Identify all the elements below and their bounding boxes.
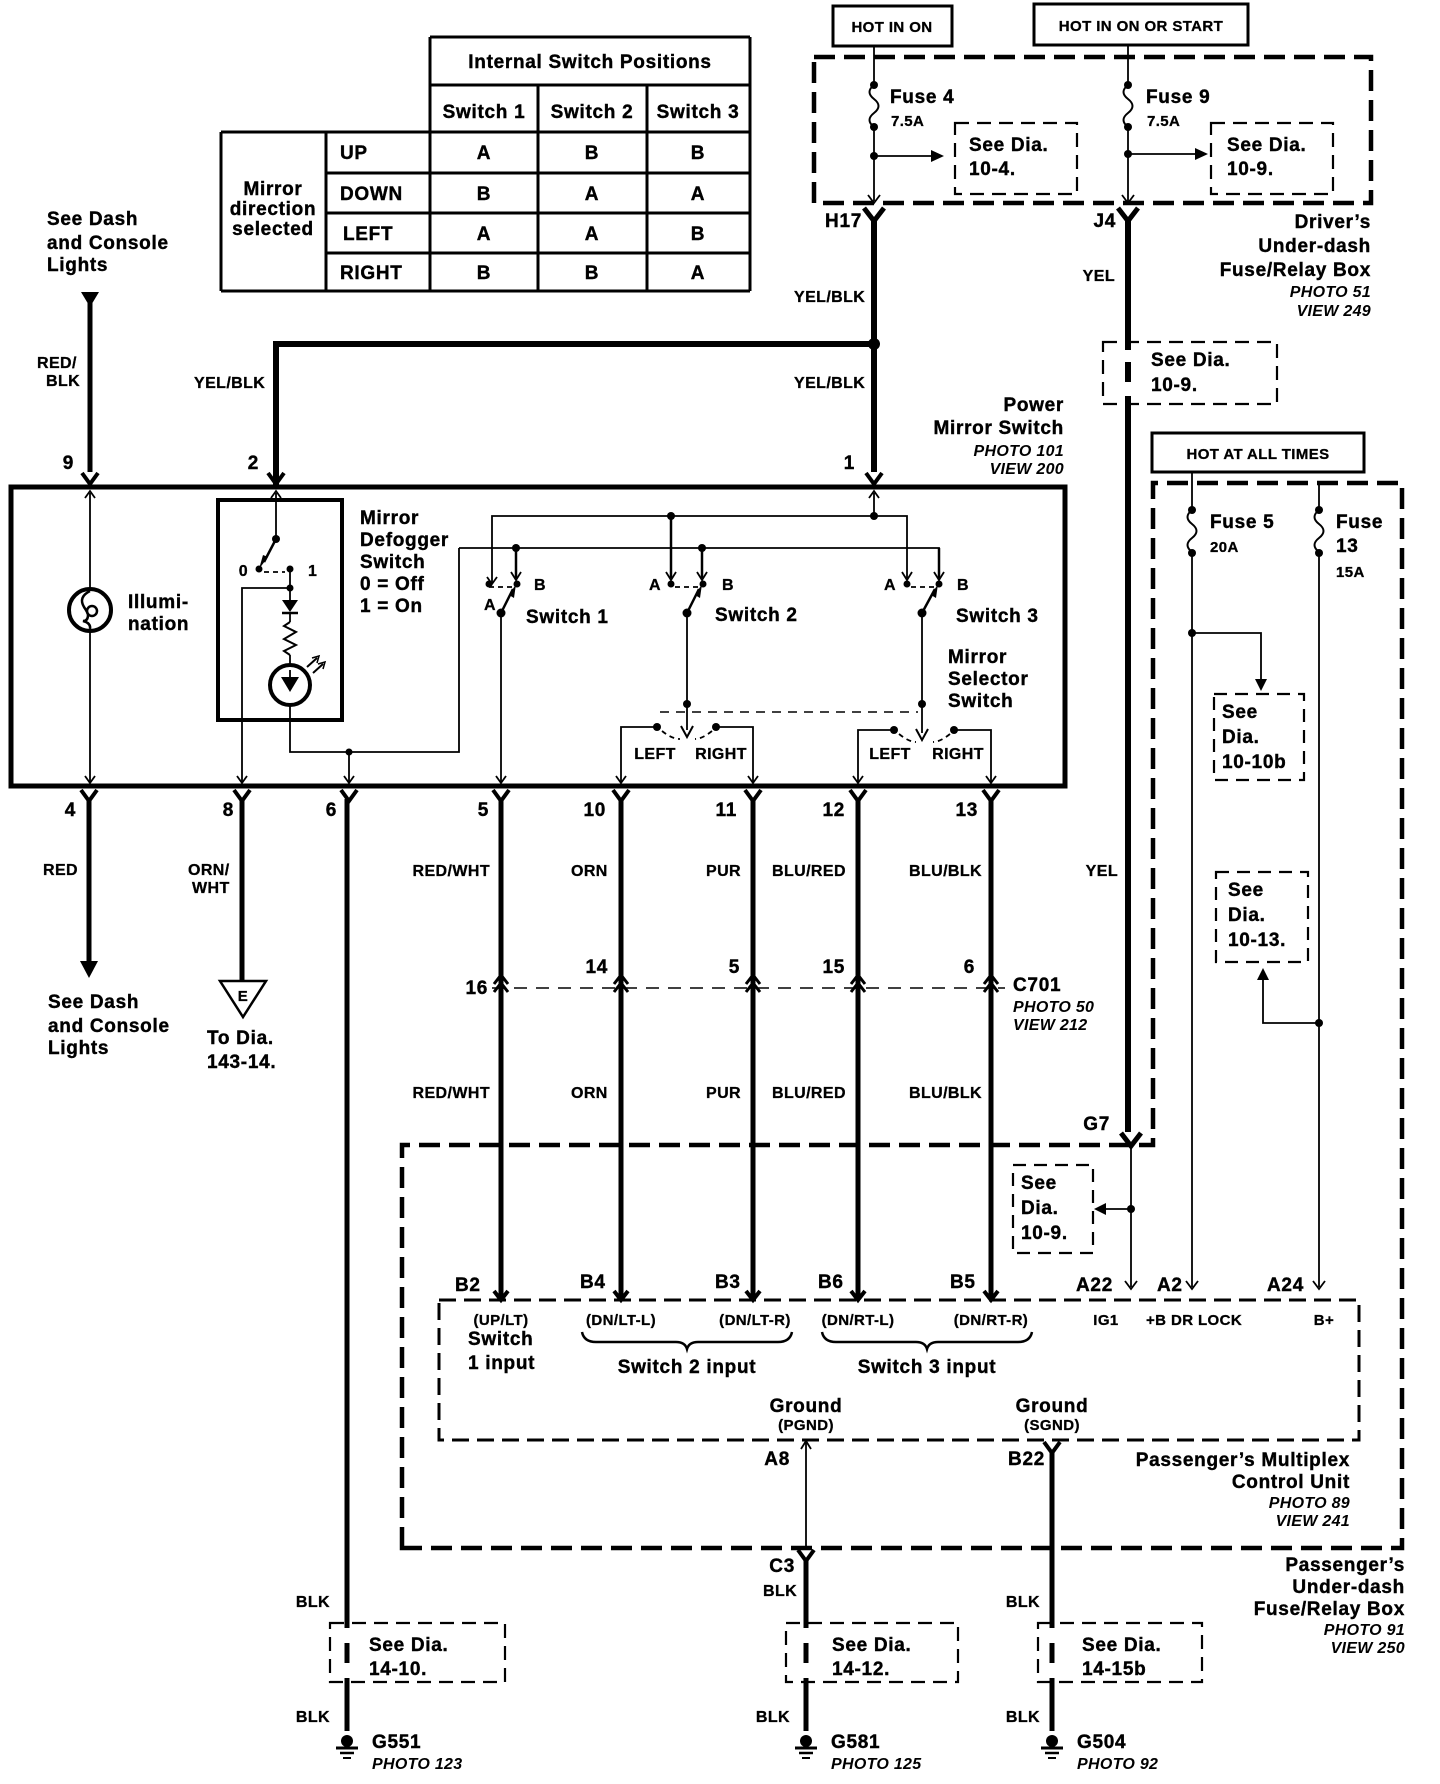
svg-text:16: 16 (465, 978, 488, 999)
svg-text:Under-dash: Under-dash (1258, 236, 1371, 257)
svg-text:J4: J4 (1093, 211, 1116, 232)
svg-text:UP: UP (340, 143, 368, 164)
svg-text:20A: 20A (1210, 539, 1239, 556)
svg-text:RIGHT: RIGHT (695, 746, 747, 763)
svg-text:G7: G7 (1083, 1114, 1110, 1135)
passenger's multiplex control unit box (dashed) (439, 1300, 1359, 1440)
svg-text:YEL: YEL (1086, 863, 1118, 880)
svg-text:B: B (477, 184, 491, 205)
ground G504 (1046, 1735, 1058, 1747)
switch 1 (487, 577, 497, 584)
svg-text:PHOTO 101: PHOTO 101 (974, 443, 1064, 460)
svg-text:Switch: Switch (360, 552, 425, 573)
svg-text:5: 5 (729, 957, 740, 978)
svg-text:15A: 15A (1336, 564, 1365, 581)
svg-text:B5: B5 (950, 1272, 976, 1293)
wire LED down and right to pin 6 (290, 548, 459, 752)
second bus wire (459, 548, 939, 577)
wire YEL/BLK horizontal to pin 2 (276, 344, 874, 485)
connector C701 dashed line (492, 987, 1005, 989)
switch 2 (670, 516, 673, 578)
switch 3 (874, 516, 907, 578)
svg-text:+B DR LOCK: +B DR LOCK (1146, 1312, 1242, 1329)
svg-text:BLK: BLK (46, 373, 80, 390)
svg-text:G581: G581 (831, 1732, 880, 1753)
pin 9 internal wire with illumination bulb (85, 491, 95, 498)
ground G581 (800, 1735, 812, 1747)
svg-text:and Console: and Console (47, 233, 169, 254)
fuse 13 (1318, 483, 1320, 510)
svg-text:PHOTO 123: PHOTO 123 (372, 1756, 462, 1773)
brace switch 2 input (582, 1332, 792, 1349)
svg-text:A: A (484, 597, 496, 614)
svg-text:See: See (1021, 1173, 1057, 1194)
svg-text:PHOTO 89: PHOTO 89 (1269, 1495, 1350, 1512)
LED light rays (307, 658, 323, 673)
svg-text:10-10b: 10-10b (1222, 752, 1286, 773)
svg-text:BLU/BLK: BLU/BLK (909, 863, 982, 880)
svg-text:VIEW 241: VIEW 241 (1276, 1513, 1350, 1530)
HOT IN ON box (833, 6, 952, 46)
svg-text:Switch 2: Switch 2 (715, 605, 798, 626)
svg-text:B6: B6 (818, 1272, 844, 1293)
wire ORN/WHT pin 8 to E (240, 799, 245, 981)
svg-text:A22: A22 (1076, 1275, 1113, 1296)
contact 1 (287, 566, 294, 573)
svg-text:(DN/LT-R): (DN/LT-R) (719, 1312, 791, 1329)
svg-text:VIEW 250: VIEW 250 (1331, 1640, 1405, 1657)
svg-text:Fuse/Relay Box: Fuse/Relay Box (1220, 260, 1371, 281)
See Dia. 10-13 box (1216, 872, 1308, 962)
svg-text:Switch: Switch (468, 1329, 533, 1350)
svg-text:1 = On: 1 = On (360, 596, 423, 617)
fuse 9 (1124, 81, 1132, 89)
svg-text:VIEW 212: VIEW 212 (1013, 1017, 1087, 1034)
svg-text:14-12.: 14-12. (832, 1659, 890, 1680)
svg-text:RED: RED (43, 862, 78, 879)
arrow fuse 13 branch up to See Dia 10-13 (1263, 976, 1319, 1023)
svg-text:1: 1 (844, 453, 855, 474)
svg-text:Defogger: Defogger (360, 530, 449, 551)
svg-text:(PGND): (PGND) (778, 1417, 834, 1434)
svg-text:HOT AT ALL TIMES: HOT AT ALL TIMES (1186, 446, 1329, 463)
svg-text:See Dia.: See Dia. (832, 1635, 912, 1656)
svg-text:YEL: YEL (1083, 268, 1115, 285)
svg-text:Fuse 4: Fuse 4 (890, 87, 954, 108)
See Dia. 14-12. box (786, 1623, 958, 1682)
svg-text:BLK: BLK (756, 1709, 790, 1726)
svg-text:A: A (649, 577, 661, 594)
svg-text:HOT IN ON: HOT IN ON (851, 19, 932, 36)
svg-text:B: B (691, 143, 705, 164)
svg-text:6: 6 (964, 957, 975, 978)
svg-text:See Dia.: See Dia. (1227, 135, 1307, 156)
svg-text:BLK: BLK (1006, 1594, 1040, 1611)
svg-text:9: 9 (63, 453, 74, 474)
top bus wire (492, 516, 874, 583)
svg-text:BLU/BLK: BLU/BLK (909, 1085, 982, 1102)
svg-text:Mirror: Mirror (243, 179, 302, 200)
svg-text:See Dash: See Dash (47, 209, 138, 230)
svg-text:14-15b: 14-15b (1082, 1659, 1146, 1680)
svg-text:15: 15 (822, 957, 845, 978)
svg-text:10-9.: 10-9. (1021, 1223, 1068, 1244)
svg-text:A: A (585, 224, 599, 245)
dashed throw between contacts (264, 571, 285, 573)
svg-text:direction: direction (230, 199, 317, 220)
svg-text:H17: H17 (825, 211, 862, 232)
svg-text:Passenger’s: Passenger’s (1285, 1555, 1405, 1576)
svg-text:Switch 3 input: Switch 3 input (858, 1357, 997, 1378)
svg-text:LEFT: LEFT (634, 746, 676, 763)
pin 1 internal wire to top bus (869, 491, 879, 498)
svg-text:B: B (534, 577, 546, 594)
svg-text:See: See (1228, 880, 1264, 901)
svg-text:11: 11 (716, 800, 738, 821)
svg-text:B: B (585, 143, 599, 164)
svg-text:Lights: Lights (48, 1038, 109, 1059)
resistor (289, 613, 291, 622)
wire branch to pin 8 (242, 588, 290, 782)
svg-text:13: 13 (1336, 536, 1359, 557)
svg-text:LEFT: LEFT (869, 746, 911, 763)
svg-text:Fuse: Fuse (1336, 512, 1383, 533)
defogger switch blade (272, 535, 280, 543)
svg-text:IG1: IG1 (1093, 1312, 1118, 1329)
svg-text:10-9.: 10-9. (1227, 159, 1274, 180)
svg-text:PHOTO 51: PHOTO 51 (1290, 284, 1371, 301)
svg-text:PHOTO 125: PHOTO 125 (831, 1756, 922, 1773)
svg-text:BLK: BLK (763, 1583, 797, 1600)
pin 2 internal wire (271, 491, 281, 498)
wire stub HOT IN ON to fuse 4 (873, 46, 875, 85)
svg-text:B: B (722, 577, 734, 594)
wire junction to pin 6 (348, 752, 350, 782)
svg-text:Switch 1: Switch 1 (526, 607, 609, 628)
svg-text:RIGHT: RIGHT (340, 263, 403, 284)
svg-text:13: 13 (955, 800, 978, 821)
svg-text:LEFT: LEFT (343, 224, 393, 245)
svg-text:See Dia.: See Dia. (369, 1635, 449, 1656)
svg-text:DOWN: DOWN (340, 184, 403, 205)
wire BLK pin 6 down to G551 (break at See Dia 14-10) (345, 799, 350, 1628)
mirror selector left (under switch 2) (653, 723, 661, 731)
arrow fuse 5 branch to See Dia 10-10b (1192, 633, 1261, 681)
wire ORN pin 10 to B4 (619, 799, 624, 1300)
svg-text:nation: nation (128, 614, 189, 635)
svg-text:PUR: PUR (706, 1085, 741, 1102)
svg-text:143-14.: 143-14. (207, 1052, 276, 1073)
See Dia. 10-10b box (1214, 694, 1304, 780)
svg-text:8: 8 (223, 800, 234, 821)
wire PUR pin 11 to B3 (751, 799, 756, 1300)
driver's under-dash fuse/relay box (dashed) (814, 57, 1371, 203)
svg-text:1: 1 (308, 563, 317, 580)
label Power Mirror Switch (933, 395, 1064, 439)
svg-text:YEL/BLK: YEL/BLK (794, 375, 865, 392)
svg-text:Fuse 9: Fuse 9 (1146, 87, 1210, 108)
wire RED/BLK pin 9 (88, 303, 93, 472)
svg-text:Switch 2: Switch 2 (551, 102, 634, 123)
svg-text:A: A (691, 184, 705, 205)
svg-text:B2: B2 (455, 1275, 481, 1296)
svg-text:Passenger’s Multiplex: Passenger’s Multiplex (1136, 1450, 1350, 1471)
svg-text:10: 10 (583, 800, 606, 821)
svg-text:Driver’s: Driver’s (1295, 212, 1371, 233)
HOT AT ALL TIMES box (1152, 433, 1364, 472)
power mirror switch box (11, 487, 1065, 786)
svg-text:BLK: BLK (1006, 1709, 1040, 1726)
svg-text:(DN/LT-L): (DN/LT-L) (586, 1312, 656, 1329)
See Dia. 10-9. box (lower) (1013, 1165, 1093, 1253)
svg-text:A: A (691, 263, 705, 284)
wire fuse 5 down to A2 (1191, 553, 1193, 1287)
svg-text:Dia.: Dia. (1222, 727, 1260, 748)
svg-text:10-4.: 10-4. (969, 159, 1016, 180)
ground G551 (341, 1735, 353, 1747)
svg-text:A: A (477, 224, 491, 245)
svg-text:BLU/RED: BLU/RED (772, 863, 846, 880)
svg-text:WHT: WHT (192, 880, 230, 897)
label mirror selector switch (948, 647, 1029, 712)
svg-text:5: 5 (478, 800, 489, 821)
contact 0 (256, 566, 263, 573)
svg-text:Switch 1: Switch 1 (443, 102, 526, 123)
wire YEL J4 down to G7 (with break at See Dia box) (1125, 221, 1131, 350)
fuse 4 (870, 81, 878, 89)
See Dia. 14-10. box (330, 1623, 505, 1682)
svg-text:ORN: ORN (571, 1085, 608, 1102)
mirror defogger switch box (218, 500, 342, 720)
HOT IN ON OR START box (1034, 4, 1248, 45)
svg-text:10-9.: 10-9. (1151, 375, 1198, 396)
svg-text:Dia.: Dia. (1228, 905, 1266, 926)
svg-text:RIGHT: RIGHT (932, 746, 984, 763)
illumination bulb (69, 589, 111, 631)
label Driver's Under-dash Fuse/Relay Box (1220, 212, 1371, 281)
svg-text:B: B (691, 224, 705, 245)
wire switch 2 to selector (686, 613, 688, 704)
svg-text:1 input: 1 input (468, 1353, 535, 1374)
fuse 5 (1188, 506, 1196, 514)
svg-text:10-13.: 10-13. (1228, 930, 1286, 951)
svg-text:See Dash: See Dash (48, 992, 139, 1013)
svg-text:selected: selected (232, 219, 314, 240)
wire contact 1 down (289, 569, 291, 600)
arrow fuse 4 to See Dia 10-4 (874, 155, 933, 157)
svg-text:PHOTO 50: PHOTO 50 (1013, 999, 1094, 1016)
svg-text:Lights: Lights (47, 255, 108, 276)
svg-text:2: 2 (248, 453, 259, 474)
svg-text:(SGND): (SGND) (1024, 1417, 1080, 1434)
svg-text:Mirror Switch: Mirror Switch (933, 418, 1064, 439)
svg-text:BLU/RED: BLU/RED (772, 1085, 846, 1102)
svg-text:Illumi-: Illumi- (128, 592, 189, 613)
svg-text:Switch 2 input: Switch 2 input (618, 1357, 757, 1378)
svg-text:14: 14 (585, 957, 608, 978)
arrow to See Dia 10-9 (lower) (1104, 1208, 1131, 1210)
svg-text:BLK: BLK (296, 1709, 330, 1726)
svg-text:To Dia.: To Dia. (207, 1028, 274, 1049)
svg-text:RED/: RED/ (37, 355, 77, 372)
svg-text:VIEW 249: VIEW 249 (1297, 303, 1371, 320)
C701 chevrons (494, 975, 998, 992)
wire fuse 13 down to A24 (1318, 553, 1320, 1287)
svg-text:and Console: and Console (48, 1016, 170, 1037)
See Dia. 10-9. box (middle) (1103, 342, 1277, 404)
svg-text:Power: Power (1003, 395, 1064, 416)
table Internal Switch Positions (221, 37, 750, 291)
svg-text:C3: C3 (769, 1556, 795, 1577)
svg-text:6: 6 (326, 800, 337, 821)
svg-text:See Dia.: See Dia. (1082, 1635, 1162, 1656)
svg-text:4: 4 (65, 800, 76, 821)
mechanical link dashed line (660, 711, 918, 713)
svg-text:BLK: BLK (296, 1594, 330, 1611)
pin function labels (473, 1312, 1334, 1329)
svg-text:12: 12 (822, 800, 845, 821)
BLK labels (296, 1583, 1040, 1726)
wire G7 to A22 (1130, 1148, 1132, 1287)
svg-text:Mirror: Mirror (360, 508, 419, 529)
svg-text:Under-dash: Under-dash (1292, 1577, 1405, 1598)
label mirror defogger switch (360, 508, 449, 617)
svg-text:Internal Switch Positions: Internal Switch Positions (468, 52, 711, 73)
svg-text:HOT IN ON OR START: HOT IN ON OR START (1059, 18, 1223, 35)
brace switch 3 input (822, 1332, 1032, 1349)
svg-text:B4: B4 (580, 1272, 606, 1293)
svg-text:7.5A: 7.5A (1147, 113, 1180, 130)
See Dia. 10-4. box (955, 123, 1077, 194)
svg-text:0 = Off: 0 = Off (360, 574, 425, 595)
svg-text:C701: C701 (1013, 975, 1061, 996)
svg-text:7.5A: 7.5A (891, 113, 924, 130)
svg-text:A: A (884, 577, 896, 594)
wire BLK C3 to G581 (804, 1559, 809, 1628)
svg-text:B: B (585, 263, 599, 284)
passenger's under-dash fuse/relay box + multiplex outer (dashed) (402, 483, 1402, 1548)
wire stub HOT IN ON OR START to fuse 9 (1127, 45, 1129, 85)
svg-text:0: 0 (239, 563, 248, 580)
svg-text:B22: B22 (1008, 1449, 1045, 1470)
svg-text:RED/WHT: RED/WHT (413, 1085, 490, 1102)
See Dia. 10-9. box (top) (1211, 123, 1333, 194)
svg-text:(DN/RT-L): (DN/RT-L) (822, 1312, 895, 1329)
C701 pin numbers (465, 957, 975, 999)
svg-text:Switch 3: Switch 3 (657, 102, 740, 123)
svg-text:B3: B3 (715, 1272, 741, 1293)
svg-text:A2: A2 (1157, 1275, 1183, 1296)
svg-text:Fuse 5: Fuse 5 (1210, 512, 1274, 533)
svg-text:ORN/: ORN/ (188, 862, 230, 879)
arrow from See Dash note (81, 292, 99, 307)
svg-text:G504: G504 (1077, 1732, 1126, 1753)
svg-text:PUR: PUR (706, 863, 741, 880)
wire fuse 9 to J4 (1127, 127, 1129, 201)
svg-text:B+: B+ (1314, 1312, 1334, 1329)
wire BLU/RED pin 12 to B6 (856, 799, 861, 1300)
svg-text:A24: A24 (1267, 1275, 1304, 1296)
See Dia. 14-15b box (1038, 1623, 1202, 1682)
wire BLK B22 to G504 (break at box) (1050, 1643, 1055, 1663)
svg-text:(DN/RT-R): (DN/RT-R) (954, 1312, 1028, 1329)
svg-text:B: B (957, 577, 969, 594)
svg-text:Mirror: Mirror (948, 647, 1007, 668)
note See Dash and Console Lights (top) (47, 209, 169, 276)
svg-text:Switch 3: Switch 3 (956, 606, 1039, 627)
svg-text:A: A (585, 184, 599, 205)
note See Dash and Console Lights (bottom) (48, 992, 170, 1059)
svg-text:Switch: Switch (948, 691, 1013, 712)
mirror selector right (under switch 3) (890, 726, 898, 734)
svg-text:G551: G551 (372, 1732, 421, 1753)
wire stub HOT AT ALL TIMES to fuse 5 (1191, 472, 1193, 510)
svg-text:Control Unit: Control Unit (1232, 1472, 1350, 1493)
wire BLU/BLK pin 13 to B5 (989, 799, 994, 1300)
svg-text:PHOTO 91: PHOTO 91 (1324, 1622, 1405, 1639)
wire switch 3 to selector (921, 613, 923, 704)
connector E triangle (220, 981, 266, 1017)
svg-text:Fuse/Relay Box: Fuse/Relay Box (1254, 1599, 1405, 1620)
diode (282, 600, 298, 612)
svg-text:See Dia.: See Dia. (1151, 350, 1231, 371)
svg-text:See: See (1222, 702, 1258, 723)
svg-text:E: E (238, 988, 248, 1005)
svg-text:See Dia.: See Dia. (969, 135, 1049, 156)
wire RED pin 4 to See Dash (87, 799, 92, 963)
arrow fuse 9 to See Dia 10-9 (1128, 153, 1197, 155)
svg-text:Dia.: Dia. (1021, 1198, 1059, 1219)
svg-text:B: B (477, 263, 491, 284)
svg-text:Selector: Selector (948, 669, 1029, 690)
svg-text:RED/WHT: RED/WHT (413, 863, 490, 880)
svg-text:Ground: Ground (1016, 1396, 1089, 1417)
svg-text:ORN: ORN (571, 863, 608, 880)
LED lamp (270, 665, 310, 705)
svg-text:VIEW 200: VIEW 200 (990, 461, 1064, 478)
wire switch 1 to pin 5 (500, 613, 502, 782)
wire RED/WHT pin 5 to B2 (499, 799, 504, 1300)
svg-text:A8: A8 (764, 1449, 790, 1470)
svg-text:PHOTO 92: PHOTO 92 (1077, 1756, 1158, 1773)
svg-text:YEL/BLK: YEL/BLK (194, 375, 265, 392)
wire YEL/BLK H17 down to junction and pin 1 (871, 221, 877, 472)
svg-text:(UP/LT): (UP/LT) (473, 1312, 528, 1329)
wire fuse 4 to H17 (873, 127, 875, 201)
svg-text:14-10.: 14-10. (369, 1659, 427, 1680)
svg-text:YEL/BLK: YEL/BLK (794, 289, 865, 306)
svg-text:Ground: Ground (770, 1396, 843, 1417)
svg-text:A: A (477, 143, 491, 164)
